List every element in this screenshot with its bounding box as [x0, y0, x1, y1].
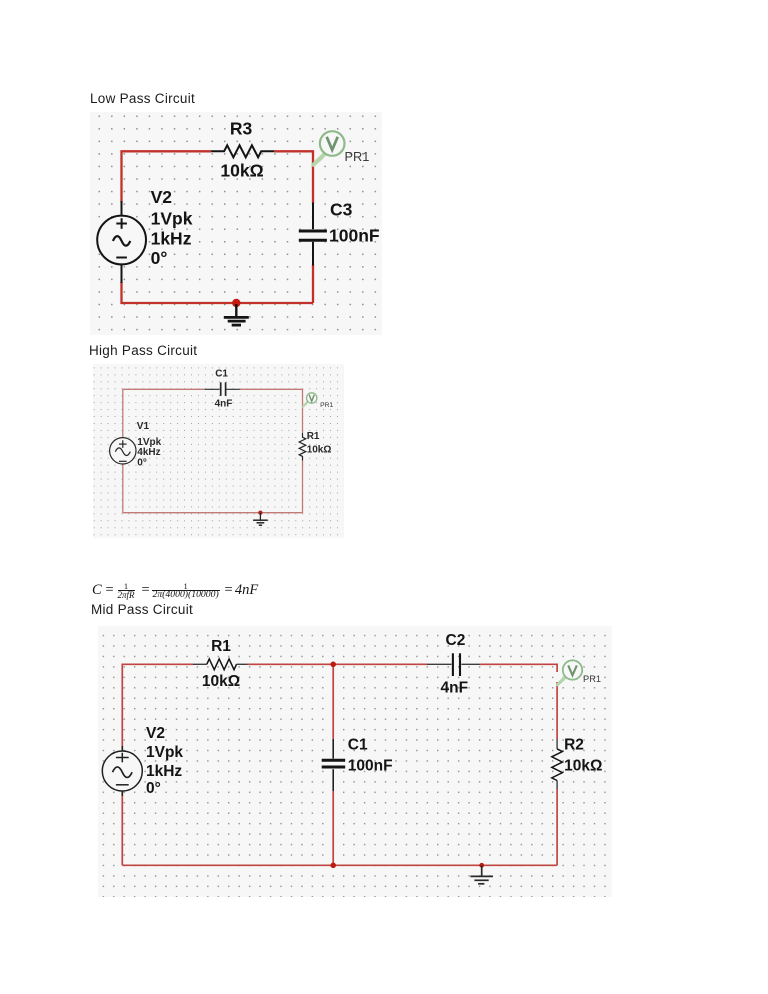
- svg-text:R1: R1: [211, 638, 231, 655]
- svg-text:4nF: 4nF: [215, 399, 233, 410]
- svg-text:R2: R2: [564, 736, 584, 753]
- svg-text:1Vpk: 1Vpk: [151, 209, 193, 229]
- svg-text:V2: V2: [151, 187, 173, 207]
- svg-text:10kΩ: 10kΩ: [564, 758, 602, 775]
- svg-text:0°: 0°: [151, 248, 168, 268]
- svg-text:C1: C1: [348, 737, 368, 754]
- svg-text:10kΩ: 10kΩ: [220, 160, 263, 180]
- svg-text:10kΩ: 10kΩ: [202, 673, 240, 690]
- svg-text:1kHz: 1kHz: [146, 763, 182, 780]
- svg-text:10kΩ: 10kΩ: [307, 445, 332, 456]
- svg-text:R3: R3: [230, 118, 253, 138]
- svg-text:V1: V1: [137, 421, 150, 432]
- svg-text:4nF: 4nF: [441, 680, 469, 697]
- svg-text:0°: 0°: [137, 457, 147, 468]
- svg-text:0°: 0°: [146, 780, 161, 797]
- svg-text:V2: V2: [146, 725, 165, 742]
- svg-text:100nF: 100nF: [329, 225, 380, 245]
- svg-text:PR1: PR1: [583, 674, 601, 684]
- svg-text:C3: C3: [330, 200, 353, 220]
- svg-text:1kHz: 1kHz: [151, 229, 192, 249]
- svg-text:100nF: 100nF: [348, 758, 393, 775]
- svg-text:C2: C2: [446, 632, 466, 649]
- svg-text:PR1: PR1: [320, 402, 333, 409]
- svg-text:1Vpk: 1Vpk: [146, 744, 183, 761]
- svg-text:PR1: PR1: [345, 149, 370, 164]
- svg-text:C1: C1: [215, 368, 228, 379]
- svg-text:R1: R1: [307, 431, 320, 442]
